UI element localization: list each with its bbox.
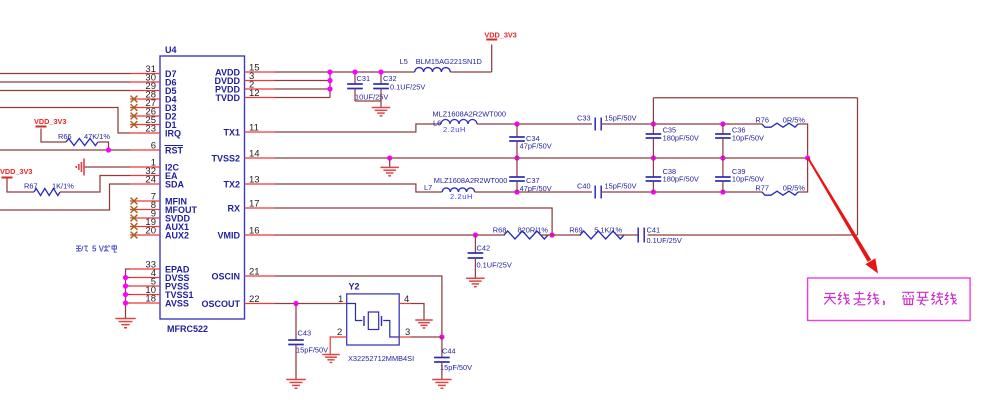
U4 pin 8 MFOUT bbox=[130, 200, 197, 215]
wire IRQ net bbox=[0, 108, 130, 134]
wire D5 net bbox=[0, 90, 130, 92]
svg-text:R76: R76 bbox=[755, 116, 769, 125]
wire TX1 to L6 bbox=[275, 124, 442, 132]
svg-text:3: 3 bbox=[405, 327, 410, 338]
svg-text:2: 2 bbox=[337, 327, 342, 338]
U4 pin 24 SDA bbox=[130, 175, 185, 190]
U4 pin 13 TX2 bbox=[223, 175, 274, 190]
svg-text:C33: C33 bbox=[577, 114, 591, 123]
wire R67 to EA pin bbox=[60, 176, 130, 193]
svg-text:18: 18 bbox=[145, 294, 156, 305]
wire RST net bbox=[0, 149, 130, 151]
U4 pin 3 DVDD bbox=[214, 71, 274, 86]
svg-text:MLZ1608A2R2WT000: MLZ1608A2R2WT000 bbox=[433, 110, 507, 119]
resistor R69 5.1K/1% bbox=[569, 226, 624, 240]
U4 pin 31 D7 bbox=[130, 64, 177, 79]
power symbol VDD_3V3 (R67) bbox=[0, 167, 32, 178]
svg-text:VDD_3V3: VDD_3V3 bbox=[484, 31, 516, 40]
inductor L6 MLZ1608A2R2WT000 2.2uH bbox=[433, 110, 507, 134]
svg-text:1: 1 bbox=[338, 294, 343, 305]
svg-text:17: 17 bbox=[249, 199, 260, 210]
wire ground bus (EPAD/DVSS/PVSS/TVSS1/AVSS) bbox=[126, 269, 131, 319]
svg-text:RST: RST bbox=[165, 146, 184, 156]
U4 pin 26 D2 bbox=[130, 107, 177, 122]
svg-text:180pF/50V: 180pF/50V bbox=[663, 175, 699, 184]
wire R69 to C41 bbox=[617, 234, 638, 236]
junction RST/R66 bbox=[106, 147, 111, 152]
junction OSCOUT/C43 bbox=[293, 301, 298, 306]
U4 pin 12 TVDD bbox=[216, 88, 275, 103]
svg-text:R77: R77 bbox=[755, 184, 769, 193]
svg-text:23: 23 bbox=[145, 124, 156, 135]
wire RX net bbox=[275, 208, 553, 235]
svg-text:U4: U4 bbox=[165, 45, 177, 55]
svg-text:0R/5%: 0R/5% bbox=[783, 184, 806, 193]
inductor L7 MLZ1608A2R2WT000 2.2uH bbox=[424, 176, 507, 201]
svg-text:47K/1%: 47K/1% bbox=[84, 132, 110, 141]
svg-text:C40: C40 bbox=[577, 182, 591, 191]
svg-text:R69: R69 bbox=[569, 226, 583, 235]
U4 pin 2 PVDD bbox=[215, 80, 275, 95]
svg-text:47pF/50V: 47pF/50V bbox=[520, 184, 552, 193]
wire R66 to RST bbox=[98, 142, 109, 150]
U4 pin 29 D5 bbox=[130, 81, 177, 96]
svg-text:BLM15AG221SN1D: BLM15AG221SN1D bbox=[416, 57, 482, 66]
svg-text:R66: R66 bbox=[58, 132, 72, 141]
svg-text:2.2uH: 2.2uH bbox=[443, 125, 466, 134]
wire L6 to C33 bbox=[477, 123, 592, 125]
wire DVDD/PVDD/TVDD bus bbox=[275, 72, 331, 98]
ground (TVSS2) bbox=[380, 158, 399, 176]
svg-text:14: 14 bbox=[249, 149, 260, 160]
U4 pin 17 RX bbox=[227, 199, 274, 214]
wire C31 to C32 bottom bbox=[355, 100, 381, 102]
U4 pin 16 VMID bbox=[218, 226, 275, 241]
U4 pin 5 PVSS bbox=[130, 277, 189, 292]
annotation text: confirm 5V supply bbox=[76, 245, 117, 254]
svg-text:2.2uH: 2.2uH bbox=[450, 192, 473, 201]
U4 pin 14 TVSS2 bbox=[211, 149, 274, 164]
svg-text:20: 20 bbox=[145, 226, 156, 237]
svg-text:C31: C31 bbox=[357, 74, 371, 83]
wire C33 to R76 bbox=[601, 123, 762, 125]
svg-text:MFRC522: MFRC522 bbox=[167, 324, 208, 334]
no-connect X marks on pins MFIN,MFOUT,SVDD,AUX1,AUX2 bbox=[131, 198, 138, 239]
capacitor C33 15pF/50V (series) bbox=[577, 114, 637, 131]
svg-text:TVDD: TVDD bbox=[216, 93, 241, 103]
svg-text:820R/1%: 820R/1% bbox=[518, 226, 549, 235]
U4 pin 33 EPAD bbox=[130, 260, 190, 275]
junction dots C31 C32 on rail bbox=[352, 69, 383, 74]
svg-text:L7: L7 bbox=[424, 183, 432, 192]
wire I2C net bbox=[84, 166, 130, 168]
svg-text:1K/1%: 1K/1% bbox=[52, 182, 74, 191]
svg-text:OSCOUT: OSCOUT bbox=[201, 299, 240, 309]
svg-text:C41: C41 bbox=[647, 226, 661, 235]
U4 pin 27 D3 bbox=[130, 98, 177, 113]
svg-text:6: 6 bbox=[151, 141, 156, 152]
svg-text:13: 13 bbox=[249, 175, 260, 186]
svg-text:0.1UF/25V: 0.1UF/25V bbox=[477, 261, 512, 270]
svg-text:TX2: TX2 bbox=[223, 180, 240, 190]
U4 pin 22 OSCOUT bbox=[201, 294, 274, 309]
U4 pin 9 SVDD bbox=[130, 209, 191, 224]
capacitor C43 15pF/50V bbox=[288, 304, 328, 380]
svg-text:15pF/50V: 15pF/50V bbox=[440, 363, 472, 372]
ferrite bead L5 BLM15AG221SN1D bbox=[400, 57, 482, 72]
U4 pin 28 D4 bbox=[130, 90, 177, 105]
wire SDA net bbox=[0, 184, 130, 210]
ground (C42) bbox=[466, 278, 485, 286]
svg-text:L5: L5 bbox=[400, 57, 408, 66]
wire L7 to C40 bbox=[475, 191, 592, 193]
wire AVDD power rail bbox=[275, 45, 492, 73]
svg-text:C44: C44 bbox=[442, 347, 456, 356]
svg-text:15pF/50V: 15pF/50V bbox=[605, 114, 637, 123]
wire OSCOUT net bbox=[275, 303, 347, 305]
svg-text:0R/5%: 0R/5% bbox=[783, 116, 806, 125]
capacitor C36 10pF/50V bbox=[715, 124, 764, 158]
U4 pin 30 D6 bbox=[130, 73, 177, 88]
svg-text:C43: C43 bbox=[298, 329, 312, 338]
svg-text:15pF/50V: 15pF/50V bbox=[296, 346, 328, 355]
U4 pin 32 EA bbox=[130, 166, 178, 181]
svg-text:AVSS: AVSS bbox=[165, 299, 189, 309]
capacitor C44 15pF/50V bbox=[434, 337, 472, 379]
resistor R76 0R/5% bbox=[755, 116, 805, 128]
svg-text:16: 16 bbox=[249, 226, 260, 237]
svg-text:AUX2: AUX2 bbox=[165, 231, 189, 241]
U4 pin 21 OSCIN bbox=[211, 267, 274, 282]
wire D7 net bbox=[0, 73, 130, 75]
power symbol VDD_3V3 (R66) bbox=[34, 117, 66, 127]
wire Y2 pin4 to ground bbox=[399, 304, 424, 320]
wire antenna feedback loop bbox=[648, 98, 858, 235]
U4 pin 4 DVSS bbox=[130, 268, 190, 283]
svg-text:5 V: 5 V bbox=[92, 245, 105, 254]
ground (C43) bbox=[286, 380, 305, 389]
power symbol VDD_3V3 (top) bbox=[484, 31, 516, 40]
resistor R67 1K/1% bbox=[24, 182, 74, 196]
U4 pin 7 MFIN bbox=[130, 192, 187, 207]
wire TX2 to L7 bbox=[275, 184, 443, 192]
svg-text:RX: RX bbox=[227, 204, 240, 214]
svg-text:0.1UF/25V: 0.1UF/25V bbox=[647, 236, 682, 245]
wire Y2 pin3 to OSCIN bbox=[399, 336, 442, 338]
wire C40 to R77 bbox=[601, 191, 762, 193]
resistor R66 47K/1% bbox=[58, 132, 110, 146]
U4 pin 19 AUX1 bbox=[130, 217, 189, 232]
capacitor C41 0.1UF/25V (series) bbox=[638, 226, 682, 246]
wire Y2 pin2 to ground bbox=[330, 337, 347, 354]
svg-text:24: 24 bbox=[145, 175, 156, 186]
crystal Y2 X32252712MMB4SI bbox=[337, 282, 414, 364]
resistor R68 820R/1% bbox=[493, 226, 549, 240]
junction dots VMID row bbox=[473, 232, 555, 237]
svg-text:180pF/50V: 180pF/50V bbox=[663, 134, 699, 143]
wire OSCIN net bbox=[275, 276, 442, 337]
annotation red arrow bbox=[807, 158, 878, 274]
no-connect X marks on pins D4,D3,D2,D1 bbox=[131, 96, 138, 128]
junction dots ground bus bbox=[123, 275, 128, 306]
svg-text:TX1: TX1 bbox=[223, 128, 240, 138]
junction dots TX1 row bbox=[514, 121, 725, 126]
wire R68 to R69 bbox=[541, 234, 581, 236]
ground (Y2 pin4) bbox=[415, 320, 433, 328]
wire R77 to antenna node bbox=[798, 158, 808, 192]
svg-text:10pF/50V: 10pF/50V bbox=[732, 175, 764, 184]
svg-text:21: 21 bbox=[249, 267, 260, 278]
svg-text:R67: R67 bbox=[24, 182, 38, 191]
U4 pin 1 I2C bbox=[130, 158, 180, 173]
junction dots power bus bbox=[327, 69, 332, 91]
svg-text:MLZ1608A2R2WT000: MLZ1608A2R2WT000 bbox=[434, 176, 508, 185]
resistor R77 0R/5% bbox=[755, 184, 805, 196]
wire D6 net bbox=[0, 81, 130, 83]
svg-text:10UF/25V: 10UF/25V bbox=[355, 93, 388, 102]
wire VMID net bbox=[275, 234, 506, 236]
capacitor C35 180pF/50V bbox=[646, 124, 699, 158]
svg-text:5.1K/1%: 5.1K/1% bbox=[594, 226, 622, 235]
IC U4 MFRC522 body bbox=[160, 45, 245, 334]
ground (U4 VSS pins) bbox=[115, 319, 135, 328]
U4 pin 15 AVDD bbox=[215, 63, 274, 78]
U4 pin 23 IRQ bbox=[130, 124, 181, 139]
svg-text:L6: L6 bbox=[433, 119, 441, 128]
capacitor C42 0.1UF/25V bbox=[468, 235, 512, 278]
wire TVSS2 net bbox=[275, 157, 808, 159]
svg-text:47pF/50V: 47pF/50V bbox=[520, 142, 552, 151]
U4 pin 20 AUX2 bbox=[130, 226, 189, 241]
capacitor C31 10UF/25V bbox=[347, 72, 388, 102]
U4 pin 11 TX1 bbox=[223, 123, 274, 138]
wire R76 to antenna node bbox=[798, 124, 808, 158]
svg-text:OSCIN: OSCIN bbox=[211, 272, 240, 282]
svg-text:VDD_3V3: VDD_3V3 bbox=[34, 117, 66, 126]
svg-text:TVSS2: TVSS2 bbox=[211, 154, 240, 164]
wire VDD to R67 bbox=[7, 179, 34, 193]
junction dots TVSS2 row bbox=[387, 155, 810, 160]
svg-text:10pF/50V: 10pF/50V bbox=[732, 134, 764, 143]
capacitor C39 10pF/50V bbox=[715, 158, 764, 192]
svg-text:VDD_3V3: VDD_3V3 bbox=[0, 167, 32, 176]
annotation box: antenna routing note bbox=[808, 278, 971, 321]
svg-text:12: 12 bbox=[249, 88, 260, 99]
junction OSCIN/C44/Y2 bbox=[439, 334, 444, 339]
svg-text:SDA: SDA bbox=[165, 180, 185, 190]
ground (I2C pin) bbox=[76, 159, 84, 176]
svg-text:X32252712MMB4SI: X32252712MMB4SI bbox=[348, 354, 414, 363]
svg-text:Y2: Y2 bbox=[349, 282, 360, 292]
svg-text:22: 22 bbox=[249, 294, 260, 305]
U4 pin 6 RST bbox=[130, 141, 184, 156]
ground (Y2 pin2) bbox=[322, 355, 340, 363]
capacitor C37 47pF/50V bbox=[509, 158, 552, 193]
U4 pin 25 D1 bbox=[130, 115, 177, 130]
svg-text:VMID: VMID bbox=[218, 231, 241, 241]
svg-text:0.1UF/25V: 0.1UF/25V bbox=[390, 83, 425, 92]
svg-text:11: 11 bbox=[249, 123, 259, 134]
ground (C44) bbox=[432, 380, 451, 389]
svg-text:R68: R68 bbox=[493, 226, 507, 235]
svg-text:C42: C42 bbox=[477, 244, 491, 253]
U4 pin 10 TVSS1 bbox=[130, 285, 194, 300]
U4 pin 18 AVSS bbox=[130, 294, 189, 309]
svg-text:15pF/50V: 15pF/50V bbox=[605, 182, 637, 191]
junction dots TX2 row bbox=[514, 189, 725, 194]
wire VDD to R66 bbox=[41, 129, 66, 143]
capacitor C34 47pF/50V bbox=[509, 124, 552, 158]
svg-text:IRQ: IRQ bbox=[165, 129, 181, 139]
capacitor C38 180pF/50V bbox=[646, 158, 699, 192]
ground (C31/C32) bbox=[372, 102, 391, 116]
capacitor C32 0.1UF/25V bbox=[373, 72, 425, 102]
capacitor C40 15pF/50V (series) bbox=[577, 182, 637, 199]
